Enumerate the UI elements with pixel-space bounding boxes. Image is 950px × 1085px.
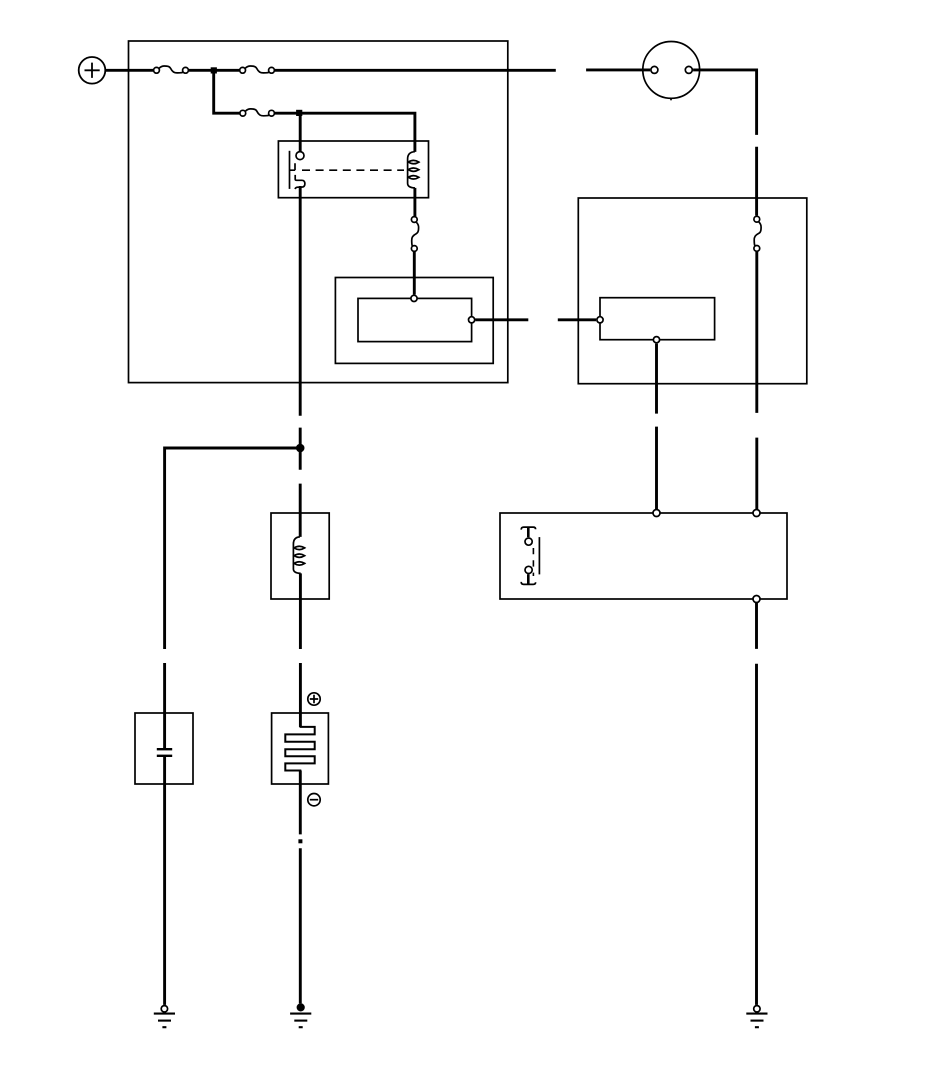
fuse 1	[154, 66, 189, 73]
fuse 4 (vertical, spark unit feed)	[754, 216, 761, 251]
terminal on inner module left	[597, 317, 603, 323]
battery positive source symbol	[79, 57, 106, 84]
fuse 2	[240, 66, 275, 73]
ignition switch SW1	[643, 42, 700, 101]
exciter coil box	[271, 513, 329, 599]
wire battery+ to fuse 1	[106, 69, 153, 72]
junction 1 drop wire	[214, 70, 240, 113]
wire exciter coil to battery	[299, 573, 302, 727]
battery ground connector dot	[298, 839, 302, 843]
wire junction 2 to relay coil	[300, 113, 415, 152]
fuse 3	[240, 109, 274, 116]
node junction 1	[211, 67, 217, 73]
battery plus marker	[308, 693, 320, 705]
wire fuse 4 down through spark unit	[755, 252, 758, 509]
wire junction 3 to condenser drop	[165, 448, 301, 748]
wire battery to ground	[299, 771, 302, 1004]
spark unit inner module box	[600, 298, 715, 340]
ignition coil right terminal	[469, 317, 475, 323]
battery box	[272, 713, 329, 784]
node junction 3	[296, 444, 305, 453]
wire inner module to pulse generator	[655, 344, 658, 510]
wire fuse 1 to junction 1	[189, 69, 214, 72]
battery minus marker	[308, 794, 320, 806]
spark unit box	[578, 198, 807, 384]
ground right terminal	[754, 1006, 760, 1012]
wire relay switch to lower junction	[299, 186, 302, 448]
pulse generator top-left terminal	[653, 510, 660, 517]
wire relay coil to fuse 5	[413, 188, 416, 216]
wire fuse 3 to junction 2	[275, 112, 300, 115]
ignition coil outer box	[335, 278, 493, 364]
pulse generator pickup contact	[521, 527, 539, 584]
pulse generator bottom terminal	[753, 596, 760, 603]
wire junction 2 to relay switch	[299, 113, 302, 152]
wire fuse 2 to harness connector	[275, 69, 556, 72]
ground middle symbol	[290, 1014, 311, 1028]
ground middle terminal	[297, 1003, 305, 1011]
pulse generator dashed actuation link	[532, 548, 534, 576]
relay switch contact	[290, 151, 305, 189]
wire connector to ignition switch	[586, 68, 650, 71]
condenser C1	[157, 749, 172, 756]
exciter coil winding	[293, 537, 304, 574]
wire condenser to ground	[163, 757, 166, 1005]
relay box	[278, 141, 428, 198]
ground left terminal	[161, 1006, 167, 1012]
relay coil	[408, 152, 419, 188]
wire junction 1 to fuse 2	[214, 69, 240, 72]
ground left symbol	[154, 1014, 175, 1028]
ignition coil inner box	[358, 298, 472, 341]
wire fuse 5 to ignition coil	[413, 252, 416, 295]
wire pulse generator to ground	[755, 603, 758, 1005]
wire ignition switch to right drop	[693, 70, 757, 216]
fuse 5 (vertical, coil feed)	[411, 217, 418, 252]
ground right symbol	[746, 1014, 767, 1028]
node junction 2	[296, 110, 302, 116]
pulse generator box	[500, 513, 787, 599]
condenser box	[135, 713, 193, 784]
battery cell plates	[285, 726, 314, 772]
main ignition enclosure box	[129, 41, 508, 383]
relay actuation dashed link	[302, 169, 404, 171]
wire coil output to spark unit	[476, 318, 597, 321]
ignition coil top terminal	[411, 295, 417, 301]
terminal on inner module bottom	[653, 337, 659, 343]
pulse generator top-right terminal	[753, 510, 760, 517]
wire junction 3 to exciter coil	[299, 448, 302, 537]
